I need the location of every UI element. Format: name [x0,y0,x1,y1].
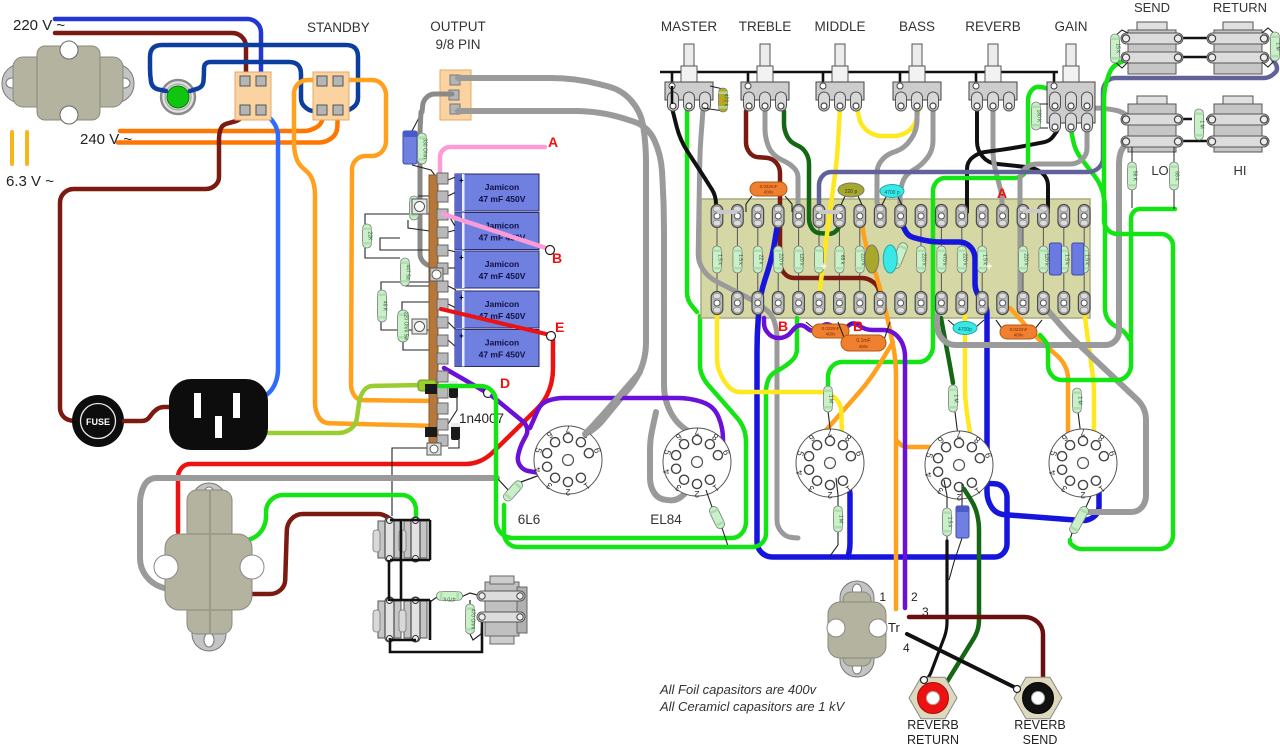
resistor 68k [1173,147,1175,162]
svg-text:4700p: 4700p [958,327,972,333]
svg-text:Tr: Tr [888,620,900,635]
resistor 470 Ohm [466,604,476,634]
wire treble grey mid [765,111,798,212]
board resistor 120 k [1039,246,1049,273]
blue cap below socket4 [961,484,963,508]
wire grey master lug wire [698,110,798,538]
svg-text:400v: 400v [764,190,775,195]
resistor below socket4 [944,480,947,508]
pot BASS [893,44,941,111]
resistor 1M return [1262,28,1275,34]
svg-text:LO: LO [1151,163,1168,178]
svg-text:D: D [500,375,510,391]
wire grey diag to EL84 pin8 helper [585,372,640,434]
resistor EL84 grid [708,505,726,530]
resistor 10K [410,196,420,220]
board resistor 220 k [855,246,865,273]
resistor above socket4 [955,412,959,440]
board resistor 1.5 k [978,246,988,273]
wire 240V orange A [120,112,323,131]
wire amber switch2 loop [338,80,436,401]
resistor 330 Ohm 5w [418,133,428,164]
resistor 22K [363,224,373,248]
svg-text:1.5 k: 1.5 k [717,254,723,265]
green heater loop around power tubes [440,316,746,538]
wire orange branch socket4 [896,440,940,447]
purple wire node D [444,368,484,391]
foil cap 0.022mF top [746,196,752,212]
wire amber switch2 left long [294,80,436,426]
svg-text:REVERB: REVERB [907,718,958,732]
resistor 1k5 at 6L6 [502,479,525,503]
svg-text:E: E [555,319,564,335]
fuse holder [72,395,124,447]
svg-text:447 5a: 447 5a [405,264,411,280]
svg-text:Jamicon: Jamicon [485,338,520,348]
board terminals [711,205,1090,315]
svg-text:A: A [997,185,1007,201]
output connector [440,70,471,120]
svg-text:220 k: 220 k [921,253,927,266]
strip screws [412,199,443,334]
svg-text:7: 7 [1080,427,1085,437]
wire yellow to socket4 [965,315,971,440]
svg-text:RETURN: RETURN [907,733,959,747]
svg-text:0.022mF: 0.022mF [760,184,778,189]
resistor 15K send [1115,30,1128,36]
svg-text:2: 2 [1080,490,1085,500]
svg-text:2: 2 [956,492,961,502]
svg-text:STANDBY: STANDBY [307,20,370,35]
svg-text:68 k: 68 k [1174,171,1180,181]
svg-text:22K: 22K [367,232,373,242]
wire purple wavy long [764,318,905,608]
darkred wire transformer to jacks [244,514,390,594]
strip component leads [412,165,437,178]
green wire socket4 to reverb return [936,489,979,696]
svg-text:B: B [552,250,562,266]
wire gain black [967,131,1057,212]
svg-text:400v: 400v [1014,333,1025,338]
grey wire P2 to cap [422,94,452,112]
socket V3 [794,427,865,500]
wire blue board left [757,228,1007,557]
olive rectifier on strip [418,380,436,391]
svg-text:2: 2 [694,489,699,499]
svg-text:47 mF 450V: 47 mF 450V [479,271,526,281]
foil cap 0.022mF below [806,322,816,330]
svg-text:1 M: 1 M [828,395,834,403]
wire orange main from board [861,212,896,609]
wire darkgreen to socket4 res [941,318,953,383]
wire green bottom right loop [1070,57,1173,549]
pot GAIN dual [1047,44,1095,132]
black jack links LOHI [1160,118,1192,120]
svg-text:7: 7 [956,429,961,439]
svg-text:B: B [853,318,863,334]
svg-text:472 k: 472 k [723,94,729,107]
svg-text:EL84: EL84 [650,512,682,527]
pot REVERB [969,44,1017,111]
svg-text:GAIN: GAIN [1054,19,1087,34]
cyan cap 4700p top [882,197,886,205]
svg-text:TREBLE: TREBLE [739,19,792,34]
foil cap 0.1mF below [838,322,845,340]
blue electrolytics on board [1049,243,1061,275]
svg-text:6.3 V ~: 6.3 V ~ [6,173,54,190]
resistor 220 Ohm 5w [398,310,409,342]
svg-text:4700 p: 4700 p [884,190,900,196]
wire yellow board col1 to socket3 [717,315,842,437]
pot MIDDLE [816,44,864,111]
svg-text:MIDDLE: MIDDLE [814,19,865,34]
wire gain green upper [828,87,1071,388]
resistor 180K gain [1036,103,1048,105]
svg-text:HI: HI [1234,163,1247,178]
6.3V leads [10,130,29,166]
svg-text:220 p: 220 p [845,189,858,195]
wire grey LO down-left [937,141,1131,345]
switch SW2 standby [313,72,349,120]
board resistor 22 k [753,246,763,273]
wire yellow to socket5 [1084,310,1094,440]
resistor above socket3 [828,411,830,440]
svg-text:15 K: 15 K [1115,43,1121,54]
AC inlet socket [169,379,268,450]
black wire socket4 to reverb return tag [927,541,947,679]
svg-text:Jamicon: Jamicon [485,299,520,309]
svg-text:+: + [459,253,464,262]
svg-text:+: + [459,176,464,185]
diode D1 [449,381,458,398]
board resistor 220 k [1019,246,1029,273]
svg-text:4: 4 [903,641,910,655]
svg-text:22 k: 22 k [757,255,763,265]
board resistor 68 k [835,246,845,273]
svg-text:2: 2 [827,490,832,500]
speaker jack J1 [373,517,401,562]
svg-text:MASTER: MASTER [661,19,718,34]
jack SEND [1121,22,1183,74]
wire slate wire return to board [819,58,1277,212]
svg-text:0.022mF: 0.022mF [822,326,840,331]
wire 220V blue [55,19,261,80]
board resistor 1.5 k [1059,246,1069,273]
svg-text:Jamicon: Jamicon [485,182,520,192]
svg-text:All Ceramicl capasitors are 1: All Ceramicl capasitors are 1 kV [659,699,846,714]
svg-text:FUSE: FUSE [86,417,110,427]
grey wire transformer to 6L6 pin3 [140,478,497,592]
svg-text:7: 7 [565,424,570,434]
wire blue hook socket3 pin1 [845,482,850,557]
svg-text:220 k: 220 k [1023,253,1029,266]
resistor 1M lohi [1195,109,1205,140]
resistor 470k [437,592,463,602]
svg-text:1 M: 1 M [1275,42,1280,50]
darkred wire 3 to reverb send [909,617,1043,694]
resistor 472k master [710,86,723,89]
pink wire node A [440,147,545,176]
purple wire D to 6L6 [492,396,545,474]
svg-text:400v: 400v [859,344,870,349]
cyan cap below [948,320,956,327]
svg-text:SEND: SEND [1134,0,1170,15]
bus drop overlay master [671,86,674,104]
wire treble darkgreen [784,111,839,234]
wire gain grey to LO [1087,108,1128,116]
board resistor 220 k [917,246,927,273]
speaker jack wiring black [390,519,430,522]
board leads [717,228,1084,292]
svg-text:1.5 k: 1.5 k [737,254,743,265]
resistor below socket3 [836,478,838,506]
wire lamp blue B [190,62,318,111]
reverb return RCA [909,677,957,719]
jack HI [1207,96,1269,152]
svg-text:2: 2 [565,487,570,497]
svg-text:1 M: 1 M [953,394,959,402]
board resistor 120 k [794,246,804,273]
wire gain green lower [1071,130,1130,340]
reverb transformer Tr [827,581,887,677]
wire orange to socket5 [1010,308,1068,444]
svg-text:56 K: 56 K [1132,171,1138,182]
svg-text:1.5 k: 1.5 k [947,517,953,528]
board resistor 220 k [957,246,967,273]
resistor socket5 grid [1068,505,1090,535]
svg-text:2: 2 [911,590,918,604]
svg-text:470 k: 470 k [941,253,947,266]
svg-text:7: 7 [694,426,699,436]
svg-text:6L6: 6L6 [518,512,541,527]
wire reverb grey mid [993,111,1002,212]
wire 240V orange B [118,112,338,143]
svg-text:BASS: BASS [899,19,935,34]
svg-text:OUTPUT: OUTPUT [430,19,486,34]
wire mains red switch1-fuse [60,112,244,421]
wire switch1 blue to socket [242,111,278,403]
svg-text:1 M: 1 M [1199,120,1205,128]
wire yellow middle mid [819,108,840,298]
socket V4 [923,429,994,502]
eyelet board [701,199,1090,318]
board resistor 470 k [937,246,947,273]
svg-text:+: + [821,261,827,273]
wire grey P1 to 6L6 pin8 [458,78,646,435]
svg-text:7: 7 [827,427,832,437]
svg-text:120 k: 120 k [1043,253,1049,266]
wire yellow arc middle-bass [857,108,919,136]
board jumpers [717,210,737,214]
wire treble darkred [746,111,880,296]
wire 220V brown [55,33,246,80]
wire bass grey right [900,110,933,212]
grey hook EL84 [650,412,686,500]
filter caps C1-C5 Jamicon [455,174,539,367]
foil cap 0.022 below right [996,320,1003,330]
wire orange branch socket3 [817,342,893,444]
cap 100mF63v [403,131,417,164]
svg-text:A: A [548,134,558,150]
jack RETURN [1207,22,1269,74]
svg-text:1 M: 1 M [1077,396,1083,404]
board resistor 1.5 k [733,246,743,273]
svg-text:1.5 k: 1.5 k [1063,254,1069,265]
jack LO [1121,96,1183,152]
svg-text:B: B [778,318,788,334]
svg-text:68 k: 68 k [839,255,845,265]
power transformer T1 [2,41,134,124]
resistor 56K [1131,147,1133,162]
wire reverb black [977,108,1048,212]
svg-text:470 k: 470 k [443,596,456,602]
output transformer T2 [154,483,264,651]
svg-text:REVERB: REVERB [1014,718,1065,732]
speaker jack J2 [399,517,427,562]
pilot lamp [161,80,195,114]
svg-text:220 k: 220 k [778,253,784,266]
board resistor 220 k [774,246,784,273]
diode D2 [451,423,460,440]
svg-text:9/8 PIN: 9/8 PIN [435,37,480,52]
svg-text:All Foil capasitors are 400v: All Foil capasitors are 400v [659,682,818,697]
resistor 447.5k [401,258,411,286]
socket V5 [1047,427,1118,500]
terminal strip bar [429,175,438,455]
choke / small transformer [477,576,527,644]
diode blocks on strip [425,384,437,394]
svg-text:1: 1 [879,590,886,604]
wire grey P3 to EL84 pin8 [458,111,706,440]
svg-text:SEND: SEND [1023,733,1058,747]
wire gain grey right lower [1020,131,1087,300]
wire master black to board [672,108,716,212]
switch SW1 [235,72,271,120]
svg-text:470 Ohm: 470 Ohm [470,609,476,630]
board resistor diag 120k [890,241,908,269]
purple wire D to EL84 pin9 [530,398,723,450]
board resistor None [815,246,824,273]
svg-text:47 mF 450V: 47 mF 450V [479,194,526,204]
svg-text:47 mF 450V: 47 mF 450V [479,350,526,360]
svg-text:1 M: 1 M [838,515,844,523]
svg-text:RETURN: RETURN [1213,0,1267,15]
ground bus wire [660,71,1058,74]
svg-text:1.5 k: 1.5 k [1084,254,1090,265]
svg-text:0.022mF: 0.022mF [1010,327,1028,332]
wire blue board right [903,226,1099,521]
wire green frame right riser [504,318,797,547]
fuse to socket wire [124,407,196,421]
resistor 46k [378,290,388,322]
green master pot wire [687,110,697,312]
board resistor 1.5 k [1080,246,1090,273]
speaker jack J3 [373,597,401,642]
black wire 4 to reverb send tag [907,634,1014,687]
wire bass grey mid [877,110,917,212]
red wire node E [441,309,546,334]
pot TREBLE [741,44,789,111]
wire grey diag board [1043,305,1146,512]
svg-text:220 k: 220 k [961,253,967,266]
pot MASTER [665,44,713,111]
svg-text:180 K: 180 K [1036,109,1042,123]
svg-text:330 Ohm: 330 Ohm [422,138,428,159]
reverb send RCA [1014,677,1062,719]
svg-text:220 Ohm 5w: 220 Ohm 5w [403,312,409,341]
resistor above socket5 [1078,412,1082,440]
svg-text:+: + [459,332,464,341]
olive cap 240p [865,245,879,273]
svg-text:400v: 400v [826,332,837,337]
pink wire node B [443,214,546,248]
wire green LOHI down [1040,209,1175,380]
svg-text:46 K: 46 K [382,301,388,312]
svg-text:120 k: 120 k [798,253,804,266]
cyan cap 4700p board [883,245,897,273]
svg-text:Jamicon: Jamicon [485,259,520,269]
svg-text:+: + [459,293,464,302]
svg-text:+: + [986,261,992,273]
strip terminals [437,173,448,446]
speaker jack J4 [399,597,427,642]
socket V2 EL84 [661,426,732,499]
svg-text:REVERB: REVERB [965,19,1021,34]
ground olive wire [220,385,425,433]
svg-text:240 V ~: 240 V ~ [80,131,132,148]
board resistor 1.5 k [713,246,723,273]
black jack links top [1172,37,1218,39]
wire lamp blue A [150,45,358,111]
red wire E to output transformer [178,340,553,532]
socket V1 6L6 [532,424,603,497]
olive cap 220p top [841,196,845,205]
green wire transformer to jacks [246,495,416,541]
